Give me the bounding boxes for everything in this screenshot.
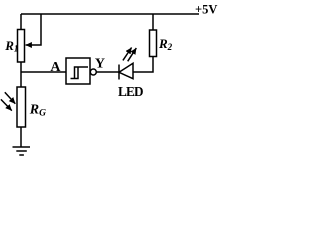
svg-text:LED: LED — [118, 84, 143, 99]
svg-text:A: A — [50, 60, 61, 75]
wire rail to R1 top — [20, 14, 22, 30]
wire R2 top to rail — [152, 14, 154, 30]
rheostat wiper arrow of R1 — [26, 14, 41, 45]
svg-text:R2: R2 — [158, 36, 173, 52]
wire RG bottom to ground — [20, 127, 22, 147]
LED emission arrow 2 — [128, 48, 137, 61]
hysteresis symbol inside U1 — [71, 67, 89, 79]
svg-text:+5V: +5V — [195, 2, 217, 16]
op-amp U1 schmitt trigger inverter box — [66, 58, 90, 84]
LED triangle — [119, 63, 133, 78]
wire LED anode to R2 bottom — [133, 57, 153, 73]
LED emission arrow 1 — [123, 48, 132, 61]
wire node A horizontal — [21, 71, 66, 73]
svg-text:R1: R1 — [4, 38, 18, 54]
wire +5V power rail — [21, 13, 199, 15]
LED cathode bar — [118, 65, 120, 80]
ground — [13, 147, 31, 155]
resistor R2 — [150, 30, 157, 57]
wire Y output to LED cathode — [96, 71, 119, 73]
wire R1 bottom to node A and RG — [20, 62, 22, 87]
resistor R1 — [18, 30, 25, 63]
svg-text:RG: RG — [29, 102, 46, 118]
light arrow 1 into RG — [5, 92, 16, 103]
light arrow 2 into RG — [1, 99, 12, 110]
svg-text:Y: Y — [95, 56, 105, 71]
photoresistor RG — [17, 87, 26, 127]
inverter output bubble — [90, 69, 96, 75]
